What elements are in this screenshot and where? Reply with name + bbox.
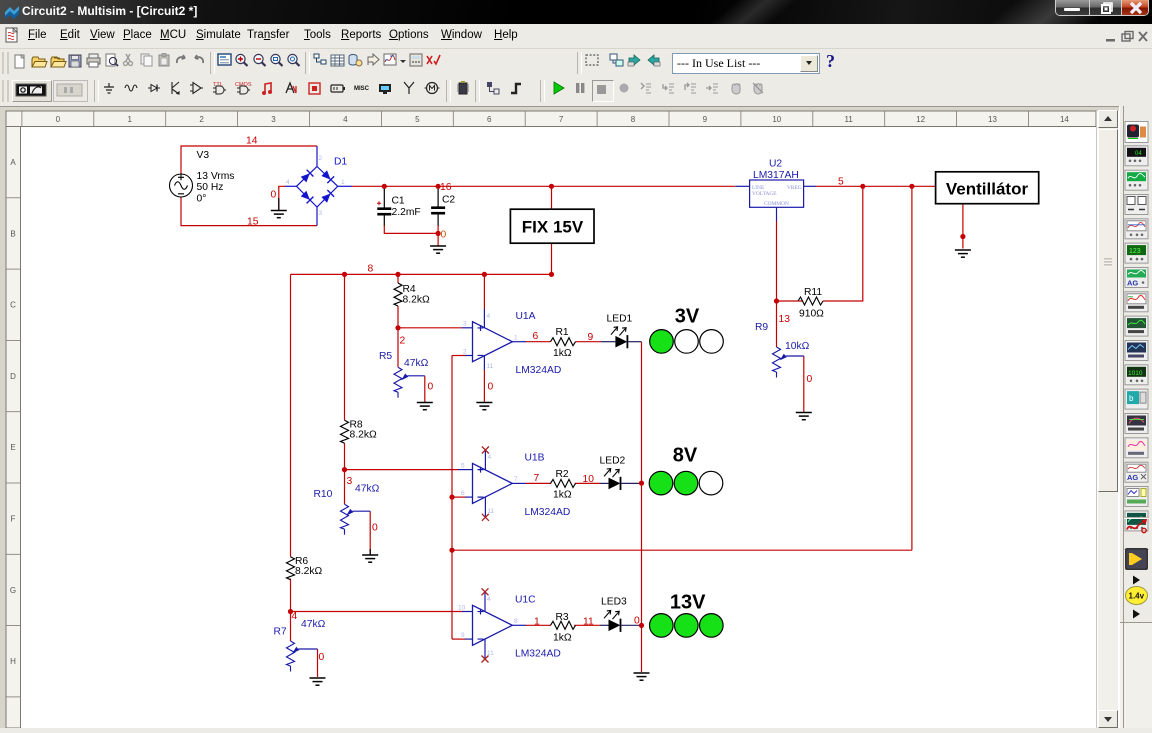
svg-text:7: 7 xyxy=(559,115,564,124)
wire R7 wiper to ground xyxy=(317,649,319,677)
svg-text:47kΩ: 47kΩ xyxy=(301,619,326,630)
svg-text:D1: D1 xyxy=(334,157,347,168)
resistor R6 xyxy=(287,557,295,580)
svg-text:b: b xyxy=(1129,394,1134,403)
svg-text:3: 3 xyxy=(347,476,353,487)
svg-text:2: 2 xyxy=(400,336,406,347)
svg-text:H: H xyxy=(10,657,16,666)
svg-text:1: 1 xyxy=(127,115,132,124)
svg-text:9: 9 xyxy=(461,632,465,639)
svg-text:10kΩ: 10kΩ xyxy=(785,341,810,352)
FIX 15V label box xyxy=(510,209,594,243)
svg-text:13: 13 xyxy=(988,115,997,124)
svg-text:1kΩ: 1kΩ xyxy=(553,348,572,359)
wire V3 bottom to bridge xyxy=(181,197,317,226)
resistor R11 xyxy=(798,297,823,305)
wire C1 bottom elbow xyxy=(384,225,438,233)
svg-text:C1: C1 xyxy=(392,196,405,207)
svg-text:R2: R2 xyxy=(556,469,569,480)
svg-text:0: 0 xyxy=(319,652,325,663)
svg-text:MISC: MISC xyxy=(354,86,370,92)
wire R11 right lead up to net 5 xyxy=(823,186,863,301)
ground R10 xyxy=(369,549,371,555)
resistor R2 xyxy=(551,479,576,487)
resistor R4 xyxy=(394,283,402,306)
wire node 4 to U1C plus xyxy=(291,611,463,613)
svg-text:B: B xyxy=(10,229,15,238)
svg-text:5: 5 xyxy=(415,115,420,124)
wire U1C output to R3 xyxy=(526,624,551,626)
wire bridge output rail to U2 xyxy=(352,185,735,187)
svg-text:10: 10 xyxy=(458,605,466,612)
svg-text:TTL: TTL xyxy=(213,82,223,88)
ground bridge-left xyxy=(271,198,287,218)
wire U2 common pin down xyxy=(776,221,778,301)
sheet ruler band xyxy=(6,111,1096,127)
svg-text:3V: 3V xyxy=(675,306,700,328)
wire node 2 to U1A plus input xyxy=(398,327,462,329)
svg-text:R9: R9 xyxy=(755,322,768,333)
svg-text:8.2kΩ: 8.2kΩ xyxy=(350,430,377,441)
wire net 8 down to R6 xyxy=(290,274,292,556)
op-amp U1B xyxy=(473,463,513,503)
wire FIX15V box to net 8 xyxy=(551,243,553,274)
ground R9 xyxy=(796,413,812,420)
svg-text:5: 5 xyxy=(461,463,465,470)
svg-text:10: 10 xyxy=(583,474,595,485)
svg-text:15: 15 xyxy=(247,217,259,228)
wire node 4 down to R7 xyxy=(290,612,292,642)
svg-text:4: 4 xyxy=(286,179,290,186)
wire U1A minus feedback vertical xyxy=(451,356,453,640)
resistor R1 xyxy=(551,338,576,346)
svg-text:U1A: U1A xyxy=(516,311,536,322)
wire node 13 to R9 xyxy=(776,301,778,347)
wire R6 bottom to node 4 xyxy=(290,579,292,612)
svg-text:AG: AG xyxy=(1127,473,1138,482)
svg-text:0: 0 xyxy=(428,382,434,393)
op-amp U1A xyxy=(473,322,513,362)
svg-text:123: 123 xyxy=(1129,248,1141,255)
svg-text:6: 6 xyxy=(461,490,465,497)
capacitor C2 xyxy=(431,186,445,225)
wire U2 out to Ventillator xyxy=(816,185,936,187)
svg-text:U1C: U1C xyxy=(515,595,536,606)
LED3 xyxy=(600,624,609,626)
svg-text:E: E xyxy=(10,443,15,452)
ground C2 xyxy=(430,246,446,253)
wire R9 wiper to ground xyxy=(803,356,805,412)
svg-text:R11: R11 xyxy=(804,287,822,298)
regulator U2 LM317AH xyxy=(735,159,816,222)
wire node 3 down to R10 xyxy=(344,470,346,505)
svg-text:4: 4 xyxy=(343,115,348,124)
svg-text:0: 0 xyxy=(441,230,447,241)
svg-text:8.2kΩ: 8.2kΩ xyxy=(403,295,430,306)
svg-text:47kΩ: 47kΩ xyxy=(355,484,380,495)
wire U1B minus stub xyxy=(452,496,465,498)
wire R10 wiper to ground xyxy=(369,511,371,554)
svg-text:Ventillátor: Ventillátor xyxy=(946,180,1029,199)
svg-text:47kΩ: 47kΩ xyxy=(404,358,429,369)
wire V3 top to bridge xyxy=(181,146,317,174)
svg-text:10: 10 xyxy=(772,115,781,124)
wire comparator net to right vertical xyxy=(452,549,912,551)
svg-text:8.2kΩ: 8.2kΩ xyxy=(295,566,322,577)
resistor R8 xyxy=(341,420,349,443)
svg-text:LM317AH: LM317AH xyxy=(753,170,799,181)
svg-text:LED3: LED3 xyxy=(601,597,627,608)
svg-text:R3: R3 xyxy=(556,612,569,623)
svg-text:7: 7 xyxy=(534,473,540,484)
svg-text:VOLTAGE: VOLTAGE xyxy=(752,191,777,197)
svg-text:V3: V3 xyxy=(197,150,210,161)
svg-text:13: 13 xyxy=(779,314,791,325)
wire U1A pin4 to net 8 xyxy=(483,274,485,309)
wire node 2 down to R5 xyxy=(397,328,399,367)
combo xyxy=(672,53,820,74)
wire R2 to LED2 xyxy=(575,482,600,484)
svg-text:CMOS: CMOS xyxy=(235,82,252,88)
bridge rectifier D1 xyxy=(285,146,352,226)
svg-text:LM324AD: LM324AD xyxy=(525,507,571,518)
svg-text:AG: AG xyxy=(1127,279,1138,288)
svg-text:LED2: LED2 xyxy=(600,456,626,467)
svg-text:2: 2 xyxy=(463,349,467,356)
svg-text:11: 11 xyxy=(845,115,854,124)
svg-text:R10: R10 xyxy=(314,489,333,500)
svg-text:1kΩ: 1kΩ xyxy=(553,633,572,644)
svg-text:R4: R4 xyxy=(403,284,416,295)
svg-text:4: 4 xyxy=(488,454,492,461)
wire net 8 horizontal xyxy=(291,273,552,275)
svg-text:4: 4 xyxy=(487,313,491,320)
svg-text:0: 0 xyxy=(807,374,813,385)
svg-text:2: 2 xyxy=(199,115,204,124)
wire node 16 to FIX15V box xyxy=(551,186,553,209)
wire C2 bottom to node 0 xyxy=(437,225,439,246)
wire bridge left pin to ground xyxy=(279,186,285,209)
svg-text:F: F xyxy=(11,515,16,524)
svg-text:16: 16 xyxy=(440,182,452,193)
svg-text:8V: 8V xyxy=(673,445,698,467)
svg-text:R1: R1 xyxy=(556,327,569,338)
svg-text:0: 0 xyxy=(56,115,61,124)
wire R5 wiper to ground xyxy=(424,376,426,402)
svg-text:0: 0 xyxy=(488,382,494,393)
svg-text:11: 11 xyxy=(488,508,495,515)
svg-text:0: 0 xyxy=(372,523,378,534)
svg-text:9: 9 xyxy=(703,115,708,124)
svg-text:8: 8 xyxy=(631,115,636,124)
svg-text:1: 1 xyxy=(534,617,540,628)
svg-text:6: 6 xyxy=(533,331,539,342)
wire R4 bottom to node 2 xyxy=(397,306,399,328)
wire R3 to LED3 xyxy=(574,624,600,626)
svg-text:4: 4 xyxy=(487,596,491,603)
svg-text:C: C xyxy=(10,301,16,310)
svg-text:LM324AD: LM324AD xyxy=(515,649,561,660)
svg-text:D: D xyxy=(10,372,16,381)
svg-text:8: 8 xyxy=(514,618,518,625)
svg-text:2: 2 xyxy=(319,155,323,162)
AC source V3 xyxy=(170,174,193,197)
ground LED column xyxy=(634,673,650,680)
svg-text:0°: 0° xyxy=(197,194,207,205)
mdi child buttons xyxy=(1104,30,1150,44)
svg-text:3: 3 xyxy=(319,210,323,217)
wire R8 bottom to node 3 xyxy=(344,443,346,469)
svg-text:LM324AD: LM324AD xyxy=(516,365,562,376)
ground Ventillator xyxy=(955,250,971,257)
svg-text:11: 11 xyxy=(583,617,594,628)
svg-text:12: 12 xyxy=(916,115,925,124)
wire U1A output to R1 xyxy=(526,341,551,343)
svg-text:G: G xyxy=(10,586,16,595)
svg-text:LED1: LED1 xyxy=(607,314,633,325)
svg-text:U1B: U1B xyxy=(525,453,545,464)
svg-text:13 Vrms: 13 Vrms xyxy=(197,171,235,182)
svg-text:A: A xyxy=(10,158,16,167)
svg-text:6: 6 xyxy=(487,115,492,124)
svg-text:0: 0 xyxy=(271,190,277,201)
svg-text:7: 7 xyxy=(514,476,518,483)
svg-text:1kΩ: 1kΩ xyxy=(553,490,572,501)
svg-text:04: 04 xyxy=(1135,151,1142,157)
outer gray margins xyxy=(0,106,1152,111)
svg-text:910Ω: 910Ω xyxy=(799,309,824,320)
wire U1A pin11 to ground xyxy=(483,370,485,403)
svg-text:VREG: VREG xyxy=(787,185,802,191)
ground R7 xyxy=(310,678,326,685)
svg-text:R7: R7 xyxy=(274,627,287,638)
wire LED column vertical xyxy=(641,342,643,672)
svg-text:1.4v: 1.4v xyxy=(1129,592,1145,601)
wire R11 left lead xyxy=(777,300,803,302)
wire U1B output to R2 xyxy=(526,482,551,484)
wire R1 to LED1 xyxy=(576,341,602,343)
ground R5 xyxy=(417,403,433,410)
svg-text:1: 1 xyxy=(341,179,345,186)
svg-text:3: 3 xyxy=(271,115,276,124)
resistor R3 xyxy=(551,621,576,629)
wire U1A minus stub xyxy=(452,355,465,357)
svg-text:C2: C2 xyxy=(442,195,455,206)
svg-text:50 Hz: 50 Hz xyxy=(197,182,224,193)
svg-text:9: 9 xyxy=(588,332,594,343)
svg-text:1: 1 xyxy=(514,335,518,342)
svg-text:FIX 15V: FIX 15V xyxy=(522,218,584,237)
svg-text:11: 11 xyxy=(487,363,494,370)
svg-text:13V: 13V xyxy=(670,592,706,614)
wire R8 top xyxy=(344,274,346,420)
svg-text:U2: U2 xyxy=(769,159,782,170)
svg-text:14: 14 xyxy=(246,136,258,147)
svg-text:5: 5 xyxy=(838,177,844,188)
LED2 xyxy=(600,482,609,484)
ground U1A xyxy=(476,403,492,410)
svg-text:2.2mF: 2.2mF xyxy=(392,207,421,218)
window buttons xyxy=(1055,0,1149,16)
wire Ventillator to ground xyxy=(962,204,964,249)
svg-text:11: 11 xyxy=(487,650,494,657)
wire right vertical from net 5 xyxy=(911,186,913,550)
svg-text:8: 8 xyxy=(368,264,374,275)
LED1 xyxy=(601,341,615,343)
svg-text:14: 14 xyxy=(1060,115,1069,124)
svg-text:3: 3 xyxy=(463,321,467,328)
svg-text:R5: R5 xyxy=(379,351,392,362)
op-amp U1C xyxy=(473,605,513,645)
svg-text:1010: 1010 xyxy=(1128,370,1143,377)
Ventillator label box xyxy=(936,172,1039,204)
svg-text:COMMON: COMMON xyxy=(764,201,789,207)
wire U1C minus stub xyxy=(452,638,465,640)
wire R4 top xyxy=(397,274,399,283)
capacitor C1 xyxy=(377,186,391,225)
wire node 3 to U1B plus xyxy=(345,469,459,471)
